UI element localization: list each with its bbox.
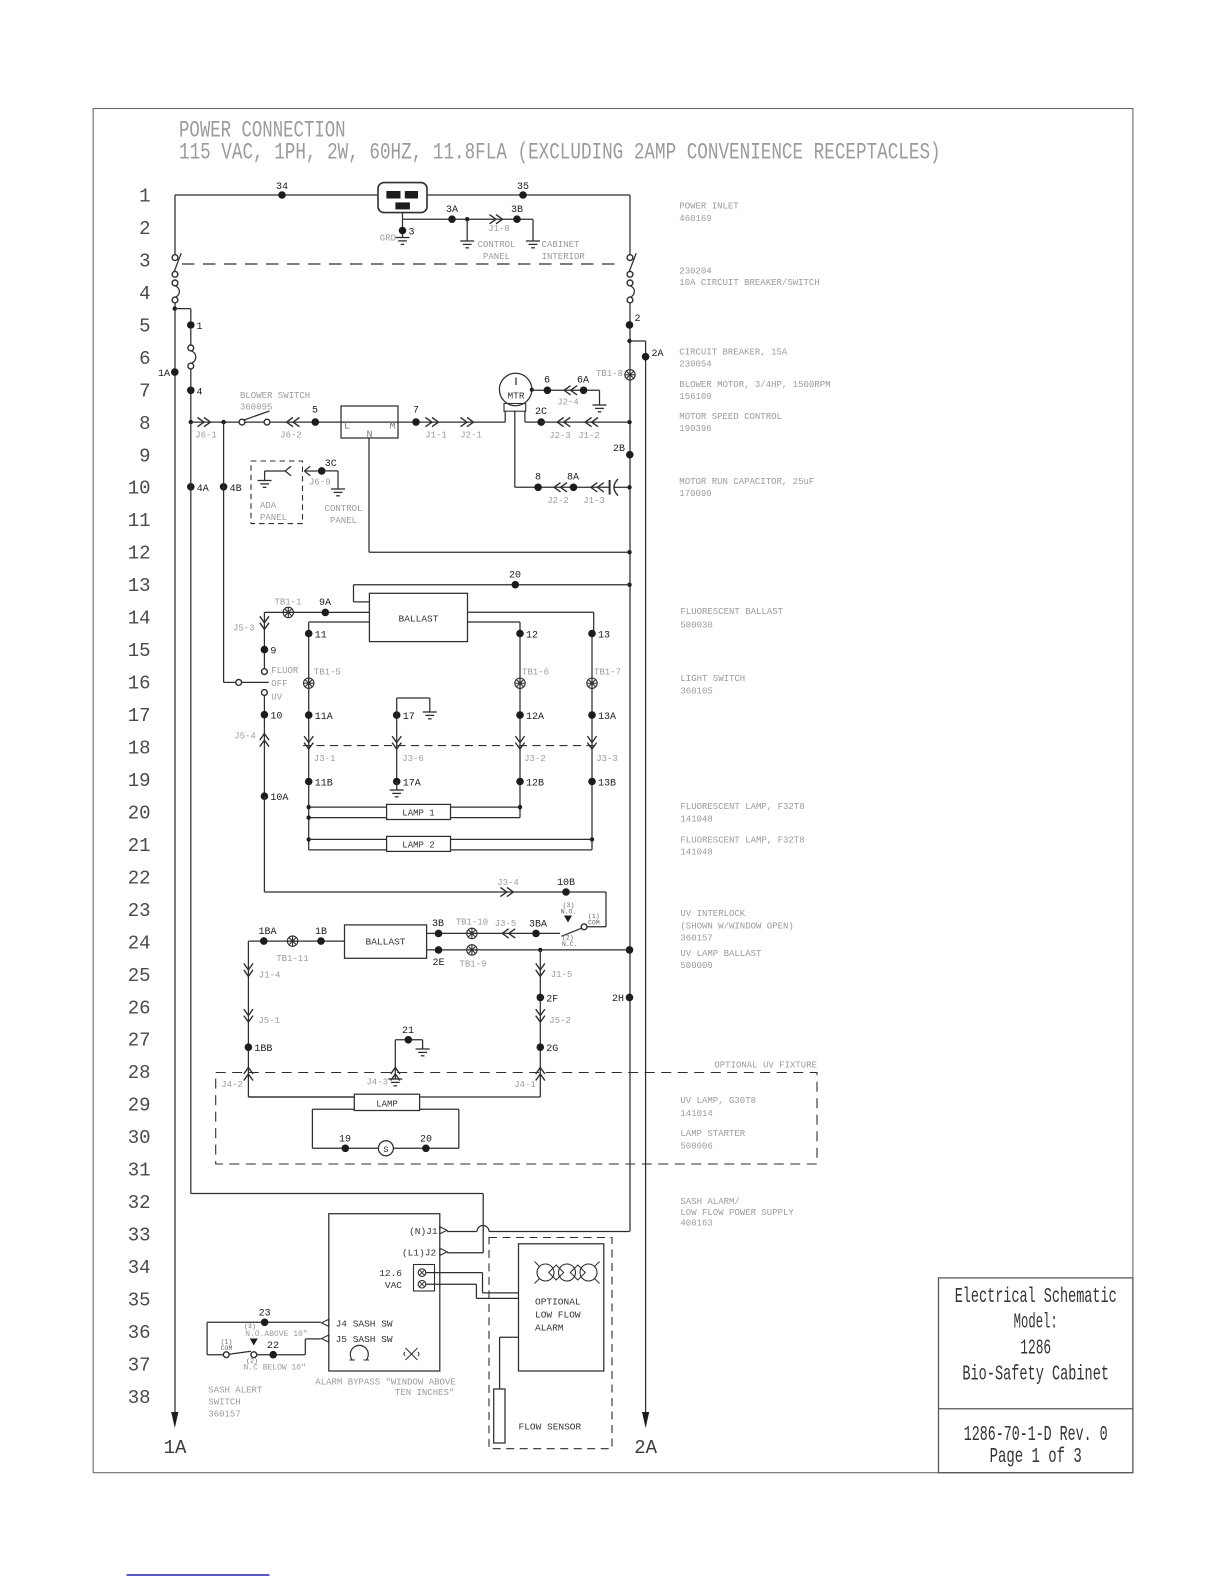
svg-text:2: 2 [139, 218, 150, 240]
svg-text:8: 8 [139, 413, 150, 435]
svg-text:13B: 13B [598, 779, 616, 790]
svg-text:13: 13 [598, 631, 610, 642]
svg-text:9: 9 [270, 647, 276, 658]
svg-text:GRD: GRD [380, 234, 396, 244]
svg-text:(3): (3) [244, 1323, 256, 1330]
svg-text:J3-5: J3-5 [495, 919, 517, 929]
svg-text:11B: 11B [315, 779, 333, 790]
svg-text:360105: 360105 [680, 686, 712, 696]
svg-text:141048: 141048 [680, 815, 712, 825]
svg-text:500009: 500009 [680, 961, 712, 971]
svg-text:20: 20 [420, 1135, 432, 1146]
svg-text:Bio-Safety Cabinet: Bio-Safety Cabinet [962, 1364, 1109, 1387]
svg-text:J4-2: J4-2 [221, 1080, 243, 1090]
svg-text:26: 26 [128, 997, 151, 1019]
svg-text:11A: 11A [315, 712, 333, 723]
svg-text:3B: 3B [511, 205, 523, 216]
svg-text:FLUOR: FLUOR [271, 666, 299, 676]
svg-text:12A: 12A [526, 712, 544, 723]
svg-text:360157: 360157 [208, 1410, 240, 1420]
svg-text:J6-9: J6-9 [309, 478, 331, 488]
svg-text:6: 6 [544, 376, 550, 387]
svg-text:360095: 360095 [240, 403, 272, 413]
svg-text:13A: 13A [598, 712, 616, 723]
svg-text:2H: 2H [612, 994, 624, 1005]
svg-text:8: 8 [535, 473, 541, 484]
svg-text:11: 11 [128, 510, 151, 532]
svg-text:TB1-9: TB1-9 [459, 960, 486, 970]
svg-text:COM: COM [221, 1345, 233, 1352]
svg-text:(SHOWN W/WINDOW OPEN): (SHOWN W/WINDOW OPEN) [680, 922, 793, 932]
svg-text:9: 9 [139, 445, 150, 467]
svg-text:3C: 3C [325, 459, 337, 470]
svg-text:2C: 2C [535, 407, 547, 418]
svg-text:J6-2: J6-2 [280, 431, 302, 441]
svg-text:J1-2: J1-2 [578, 431, 600, 441]
svg-text:J1-1: J1-1 [425, 431, 447, 441]
svg-text:MOTOR SPEED CONTROL: MOTOR SPEED CONTROL [679, 412, 782, 422]
svg-text:TB1-1: TB1-1 [274, 598, 301, 608]
svg-text:4: 4 [139, 283, 150, 305]
svg-text:J4 SASH SW: J4 SASH SW [336, 1318, 393, 1329]
svg-text:J1-5: J1-5 [551, 970, 573, 980]
svg-text:MOTOR RUN CAPACITOR, 25uF: MOTOR RUN CAPACITOR, 25uF [679, 477, 814, 487]
svg-text:J4-3: J4-3 [366, 1078, 388, 1088]
svg-text:ALARM BYPASS "WINDOW ABOVE: ALARM BYPASS "WINDOW ABOVE [315, 1378, 455, 1388]
svg-text:J3-4: J3-4 [497, 878, 519, 888]
svg-text:35: 35 [517, 182, 529, 193]
svg-text:SWITCH: SWITCH [208, 1398, 240, 1408]
svg-text:CIRCUIT BREAKER, 15A: CIRCUIT BREAKER, 15A [679, 348, 788, 358]
svg-text:SASH ALARM/: SASH ALARM/ [680, 1197, 739, 1207]
svg-text:M: M [389, 422, 395, 433]
svg-text:29: 29 [128, 1095, 151, 1117]
svg-text:COM: COM [588, 920, 600, 927]
svg-text:190396: 190396 [679, 424, 711, 434]
svg-text:J5-2: J5-2 [549, 1016, 571, 1026]
svg-text:3BA: 3BA [529, 920, 547, 931]
svg-text:14: 14 [128, 608, 151, 630]
svg-text:10A: 10A [270, 793, 288, 804]
svg-text:(L1)J2: (L1)J2 [402, 1248, 437, 1259]
svg-text:9A: 9A [319, 598, 331, 609]
svg-text:12: 12 [128, 543, 151, 565]
svg-text:35: 35 [128, 1289, 151, 1311]
svg-text:BALLAST: BALLAST [366, 937, 406, 948]
svg-text:34: 34 [276, 182, 288, 193]
svg-text:22: 22 [128, 867, 151, 889]
svg-text:10: 10 [128, 478, 151, 500]
svg-text:J5-1: J5-1 [258, 1016, 280, 1026]
svg-text:21: 21 [402, 1026, 414, 1037]
svg-text:L: L [344, 422, 350, 433]
svg-text:3: 3 [139, 250, 150, 272]
svg-text:MTR: MTR [507, 391, 524, 402]
svg-text:23: 23 [128, 900, 151, 922]
svg-text:J5-4: J5-4 [234, 732, 256, 742]
svg-text:N.C.: N.C. [562, 941, 578, 948]
svg-text:N.C BELOW 10": N.C BELOW 10" [244, 1364, 306, 1373]
svg-text:4A: 4A [197, 484, 209, 495]
svg-text:1: 1 [197, 322, 203, 333]
svg-text:1286-70-1-D Rev. 0: 1286-70-1-D Rev. 0 [964, 1424, 1108, 1447]
svg-text:1286: 1286 [1020, 1337, 1051, 1360]
svg-text:J1-4: J1-4 [259, 971, 281, 981]
svg-text:S: S [383, 1145, 388, 1155]
svg-text:4B: 4B [230, 484, 242, 495]
svg-text:21: 21 [128, 835, 151, 857]
svg-text:31: 31 [128, 1160, 151, 1182]
svg-text:PANEL: PANEL [260, 513, 287, 523]
svg-text:J3-2: J3-2 [524, 754, 546, 764]
svg-text:19: 19 [128, 770, 151, 792]
svg-text:J5-3: J5-3 [233, 623, 255, 633]
svg-text:TB1-8: TB1-8 [596, 369, 623, 379]
svg-text:OPTIONAL UV FIXTURE: OPTIONAL UV FIXTURE [714, 1061, 817, 1071]
svg-text:TEN INCHES": TEN INCHES" [395, 1388, 454, 1398]
svg-text:10B: 10B [557, 878, 575, 889]
svg-text:12.6: 12.6 [379, 1268, 402, 1279]
svg-text:5: 5 [312, 406, 318, 417]
svg-text:3A: 3A [446, 205, 458, 216]
svg-text:FLOW SENSOR: FLOW SENSOR [519, 1422, 582, 1433]
svg-text:20: 20 [128, 802, 151, 824]
svg-text:CONTROL: CONTROL [478, 240, 516, 250]
svg-text:115 VAC, 1PH, 2W, 60HZ, 11.8FL: 115 VAC, 1PH, 2W, 60HZ, 11.8FLA (EXCLUDI… [179, 140, 941, 166]
svg-text:(N)J1: (N)J1 [409, 1226, 438, 1237]
svg-text:37: 37 [128, 1354, 151, 1376]
svg-text:LOW FLOW POWER SUPPLY: LOW FLOW POWER SUPPLY [680, 1208, 794, 1218]
svg-text:20: 20 [509, 571, 521, 582]
svg-text:LAMP 1: LAMP 1 [402, 809, 434, 819]
svg-text:17: 17 [128, 705, 151, 727]
svg-text:J1-8: J1-8 [488, 224, 510, 234]
svg-text:FLUORESCENT LAMP, F32T8: FLUORESCENT LAMP, F32T8 [680, 835, 804, 845]
svg-text:6: 6 [139, 348, 150, 370]
svg-text:LAMP 2: LAMP 2 [402, 841, 434, 851]
svg-text:24: 24 [128, 932, 151, 954]
svg-text:J2-1: J2-1 [460, 431, 482, 441]
svg-text:UV INTERLOCK: UV INTERLOCK [680, 909, 745, 919]
svg-text:J5 SASH SW: J5 SASH SW [336, 1334, 393, 1345]
svg-text:3B: 3B [432, 919, 444, 930]
svg-text:Electrical Schematic: Electrical Schematic [955, 1286, 1117, 1309]
svg-text:6A: 6A [577, 376, 589, 387]
svg-text:156109: 156109 [679, 392, 711, 402]
svg-text:170090: 170090 [679, 489, 711, 499]
svg-text:J1-3: J1-3 [583, 496, 605, 506]
svg-text:4: 4 [197, 387, 203, 398]
svg-text:BLOWER MOTOR, 3/4HP, 1500RPM: BLOWER MOTOR, 3/4HP, 1500RPM [679, 380, 830, 390]
svg-text:12B: 12B [526, 779, 544, 790]
svg-text:BLOWER SWITCH: BLOWER SWITCH [240, 391, 310, 401]
svg-text:17: 17 [403, 712, 415, 723]
svg-text:28: 28 [128, 1062, 151, 1084]
svg-text:27: 27 [128, 1030, 151, 1052]
svg-text:13: 13 [128, 575, 151, 597]
svg-text:141014: 141014 [680, 1109, 712, 1119]
svg-text:7: 7 [139, 380, 150, 402]
svg-text:VAC: VAC [385, 1280, 402, 1291]
svg-text:1B: 1B [315, 927, 327, 938]
svg-text:OFF: OFF [271, 679, 287, 689]
svg-text:OPTIONAL: OPTIONAL [535, 1297, 581, 1308]
svg-text:J3-6: J3-6 [402, 754, 424, 764]
svg-text:15: 15 [128, 640, 151, 662]
svg-text:230204: 230204 [679, 266, 711, 276]
svg-text:CABINET: CABINET [542, 240, 580, 250]
svg-text:CONTROL: CONTROL [325, 504, 363, 514]
svg-text:230054: 230054 [679, 359, 711, 369]
svg-text:Model:: Model: [1014, 1312, 1058, 1335]
svg-text:500006: 500006 [680, 1142, 712, 1152]
svg-text:1A: 1A [164, 1437, 187, 1459]
svg-text:18: 18 [128, 737, 151, 759]
svg-text:2F: 2F [546, 994, 558, 1005]
svg-text:BALLAST: BALLAST [399, 614, 439, 625]
svg-text:34: 34 [128, 1257, 151, 1279]
svg-text:10A CIRCUIT BREAKER/SWITCH: 10A CIRCUIT BREAKER/SWITCH [679, 278, 819, 288]
svg-text:5: 5 [139, 315, 150, 337]
svg-text:19: 19 [339, 1135, 351, 1146]
svg-text:LIGHT SWITCH: LIGHT SWITCH [680, 674, 745, 684]
svg-text:TB1-11: TB1-11 [276, 954, 308, 964]
svg-text:1BA: 1BA [258, 927, 276, 938]
svg-text:360157: 360157 [680, 934, 712, 944]
svg-text:7: 7 [413, 406, 419, 417]
svg-text:J3-1: J3-1 [314, 754, 336, 764]
svg-text:1A: 1A [158, 369, 170, 380]
svg-text:PANEL: PANEL [483, 252, 510, 262]
svg-text:TB1-6: TB1-6 [522, 668, 549, 678]
svg-text:ALARM: ALARM [535, 1323, 564, 1334]
svg-text:N.O.ABOVE 10": N.O.ABOVE 10" [245, 1330, 307, 1339]
svg-text:TB1-7: TB1-7 [594, 668, 621, 678]
svg-text:30: 30 [128, 1127, 151, 1149]
svg-text:17A: 17A [403, 779, 421, 790]
svg-text:33: 33 [128, 1225, 151, 1247]
svg-text:UV LAMP, G30T8: UV LAMP, G30T8 [680, 1096, 756, 1106]
svg-text:Page 1 of 3: Page 1 of 3 [990, 1446, 1082, 1469]
svg-text:J2-2: J2-2 [547, 496, 569, 506]
svg-text:PANEL: PANEL [330, 516, 357, 526]
svg-text:FLUORESCENT BALLAST: FLUORESCENT BALLAST [680, 607, 783, 617]
svg-text:2B: 2B [613, 444, 625, 455]
svg-text:8A: 8A [567, 473, 579, 484]
svg-text:2A: 2A [652, 349, 664, 360]
svg-text:22: 22 [267, 1341, 279, 1352]
svg-text:SASH ALERT: SASH ALERT [208, 1386, 263, 1396]
svg-text:UV: UV [271, 693, 282, 703]
svg-text:LAMP: LAMP [376, 1099, 398, 1109]
svg-text:TB1-5: TB1-5 [314, 668, 341, 678]
svg-text:460169: 460169 [679, 214, 711, 224]
svg-text:16: 16 [128, 673, 151, 695]
svg-text:12: 12 [526, 631, 538, 642]
svg-text:LOW FLOW: LOW FLOW [535, 1310, 581, 1321]
svg-text:2E: 2E [432, 958, 444, 969]
svg-text:TB1-10: TB1-10 [456, 918, 488, 928]
svg-text:10: 10 [270, 712, 282, 723]
svg-text:J2-3: J2-3 [549, 431, 571, 441]
svg-text:11: 11 [315, 631, 327, 642]
svg-text:2A: 2A [634, 1437, 657, 1459]
svg-text:2G: 2G [546, 1044, 558, 1055]
svg-text:POWER INLET: POWER INLET [679, 202, 739, 212]
svg-text:2: 2 [635, 314, 641, 325]
svg-text:1BB: 1BB [254, 1044, 272, 1055]
svg-text:UV LAMP BALLAST: UV LAMP BALLAST [680, 949, 762, 959]
svg-text:ADA: ADA [260, 501, 277, 511]
svg-text:1: 1 [139, 186, 150, 208]
svg-text:25: 25 [128, 965, 151, 987]
svg-text:FLUORESCENT LAMP, F32T8: FLUORESCENT LAMP, F32T8 [680, 802, 804, 812]
svg-text:J6-1: J6-1 [195, 431, 217, 441]
svg-text:N.O.: N.O. [561, 909, 577, 916]
svg-text:32: 32 [128, 1192, 151, 1214]
svg-text:23: 23 [259, 1309, 271, 1320]
svg-text:J3-3: J3-3 [596, 754, 618, 764]
svg-text:J2-4: J2-4 [557, 398, 579, 408]
svg-text:400163: 400163 [680, 1219, 712, 1229]
svg-text:500030: 500030 [680, 620, 712, 630]
svg-text:LAMP STARTER: LAMP STARTER [680, 1129, 745, 1139]
svg-text:INTERIOR: INTERIOR [542, 252, 586, 262]
svg-text:141048: 141048 [680, 848, 712, 858]
svg-text:36: 36 [128, 1322, 151, 1344]
svg-text:J4-1: J4-1 [514, 1080, 536, 1090]
svg-text:38: 38 [128, 1387, 151, 1409]
